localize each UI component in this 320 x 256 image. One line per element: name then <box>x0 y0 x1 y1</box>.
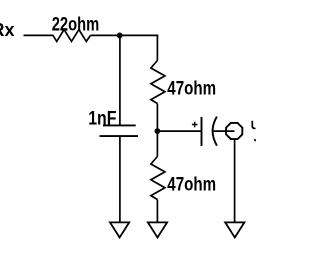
wire R2 to node B <box>156 104 158 132</box>
wire C1 to ground <box>119 136 121 222</box>
resistor R1 <box>53 30 91 42</box>
svg-text:22ohm: 22ohm <box>52 14 99 35</box>
wire C2 to connector J1 <box>214 130 235 132</box>
node A junction dot <box>117 33 123 39</box>
wire node B to R3 <box>156 131 158 156</box>
wire R1 to node A <box>91 34 120 36</box>
svg-text:Rx: Rx <box>0 20 15 40</box>
wire input lead <box>24 34 54 36</box>
capacitor C1 top plate <box>103 124 136 126</box>
C2 polarity plus sign <box>192 122 198 128</box>
ground GND1 <box>110 222 129 237</box>
wire node A to corner <box>120 34 159 36</box>
wire J1 to ground <box>234 139 236 222</box>
J1 label fragment <box>252 121 256 141</box>
resistor R2 <box>151 61 165 104</box>
wire node B to C2 <box>157 130 200 132</box>
wire node A down to C1 <box>119 35 121 125</box>
node B junction dot <box>155 128 161 134</box>
svg-text:1nF: 1nF <box>88 108 116 129</box>
capacitor C1 bottom plate <box>100 135 139 137</box>
wire R3 to ground <box>156 200 158 223</box>
svg-text:47ohm: 47ohm <box>167 175 216 196</box>
capacitor C2 negative curved plate <box>213 117 217 146</box>
svg-text:47ohm: 47ohm <box>167 79 216 100</box>
capacitor C2 positive plate <box>201 117 203 146</box>
wire corner down to R2 <box>156 35 158 61</box>
resistor R3 <box>151 157 165 200</box>
ground GND3 <box>225 222 244 237</box>
ground GND2 <box>148 222 167 237</box>
connector J1 circle <box>226 123 242 139</box>
